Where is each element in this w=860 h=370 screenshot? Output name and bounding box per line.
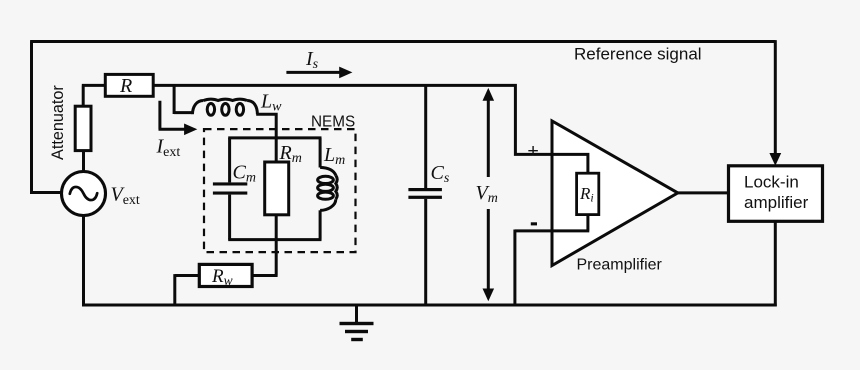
- wire: plus input stub inside preamp: [551, 154, 588, 173]
- svg-text:Attenuator: Attenuator: [49, 85, 67, 160]
- wire: bottom rail: [82, 304, 777, 307]
- resistor R body: [105, 74, 153, 96]
- wire: tank left vertical upper: [228, 138, 231, 183]
- svg-text:R: R: [119, 75, 132, 97]
- label minus: [531, 222, 537, 225]
- ground bar 3: [351, 338, 363, 341]
- resistor Rm body: [265, 162, 289, 215]
- resistor Rw body: [199, 264, 252, 286]
- voltage source Vext circle: [62, 172, 106, 216]
- resistor Ri body: [577, 173, 599, 214]
- inductor Lm exit arc: [320, 199, 336, 210]
- wire: Lw to NEMS Rm chain: [256, 113, 276, 162]
- arrow Iext: [159, 101, 186, 130]
- arrow Is: [286, 71, 340, 74]
- op-amp preamplifier triangle: [552, 121, 678, 266]
- wire: reference signal drop into lock-in: [774, 40, 777, 154]
- wire: preamp output to lock-in: [678, 191, 729, 194]
- svg-text:Lock-in: Lock-in: [744, 173, 799, 192]
- svg-text:NEMS: NEMS: [311, 114, 355, 131]
- arrowhead into lock-in: [769, 153, 781, 166]
- inductor Lm entry arc: [320, 167, 336, 175]
- capacitor Cs lower wire: [424, 199, 427, 305]
- inductor Lm teardrop loops: [318, 176, 334, 183]
- wire: lock-in bottom to bottom rail: [774, 221, 777, 306]
- wire: Ri bottom to minus input: [515, 215, 589, 305]
- svg-text:Reference signal: Reference signal: [574, 45, 702, 64]
- wire: tank right vertical lower: [319, 210, 322, 239]
- capacitor Cs top plate: [408, 188, 442, 191]
- wire: tank loop bottom: [228, 238, 321, 241]
- inductor Lm right rail arcs: [336, 175, 337, 199]
- ground bar 1: [340, 322, 374, 325]
- voltage source sine: [70, 187, 97, 200]
- ground stem: [355, 305, 358, 323]
- inductor Lw teardrop loops: [207, 104, 214, 116]
- wire: tank right vertical upper: [319, 138, 322, 168]
- measurement arrow Vm upper segment: [487, 99, 490, 177]
- wire: branch down to Lw: [174, 85, 192, 114]
- wire: tank loop top: [228, 136, 321, 139]
- ground bar 2: [345, 330, 368, 333]
- wire: Vext bottom terminal: [82, 215, 85, 306]
- wire: tank left vertical lower: [228, 195, 231, 240]
- svg-text:Preamplifier: Preamplifier: [577, 257, 663, 274]
- wire: attenuator top to corner to R: [82, 85, 106, 106]
- NEMS dashed box: [204, 129, 356, 252]
- inductor Lw entry arc: [192, 101, 203, 115]
- wire: main top rail from R to + corner: [153, 85, 588, 173]
- capacitor Cs upper wire: [424, 84, 427, 188]
- wire: Vext top to attenuator: [82, 151, 85, 173]
- capacitor Cs bottom plate: [408, 196, 442, 199]
- lock-in amplifier box: [729, 166, 823, 222]
- capacitor Cm top plate: [213, 182, 247, 185]
- resistor: Attenuator body: [75, 106, 91, 150]
- inductor Lw top rail arcs: [204, 99, 248, 100]
- capacitor Cm bottom plate: [213, 192, 247, 195]
- svg-text:+: +: [527, 140, 538, 162]
- wire: Rw left to bottom rail: [175, 274, 200, 305]
- wire: Vext left terminal to left rail: [32, 191, 63, 194]
- wire: left rail vertical: [30, 42, 33, 195]
- wire: Rm bottom down to Rw: [252, 215, 278, 276]
- inductor Lw exit arc: [247, 101, 257, 115]
- wire: reference signal top rail: [30, 40, 775, 43]
- measurement arrow Vm lower segment: [487, 209, 490, 290]
- svg-text:amplifier: amplifier: [744, 193, 809, 212]
